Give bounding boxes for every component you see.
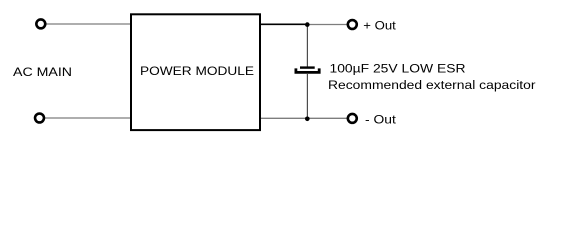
svg-text:POWER MODULE: POWER MODULE [140, 64, 254, 78]
svg-text:AC MAIN: AC MAIN [13, 65, 72, 79]
svg-text:100µF 25V LOW ESR: 100µF 25V LOW ESR [330, 61, 466, 75]
svg-text:Recommended external capacitor: Recommended external capacitor [328, 78, 536, 92]
svg-text:- Out: - Out [365, 112, 396, 126]
svg-text:+ Out: + Out [363, 18, 396, 32]
